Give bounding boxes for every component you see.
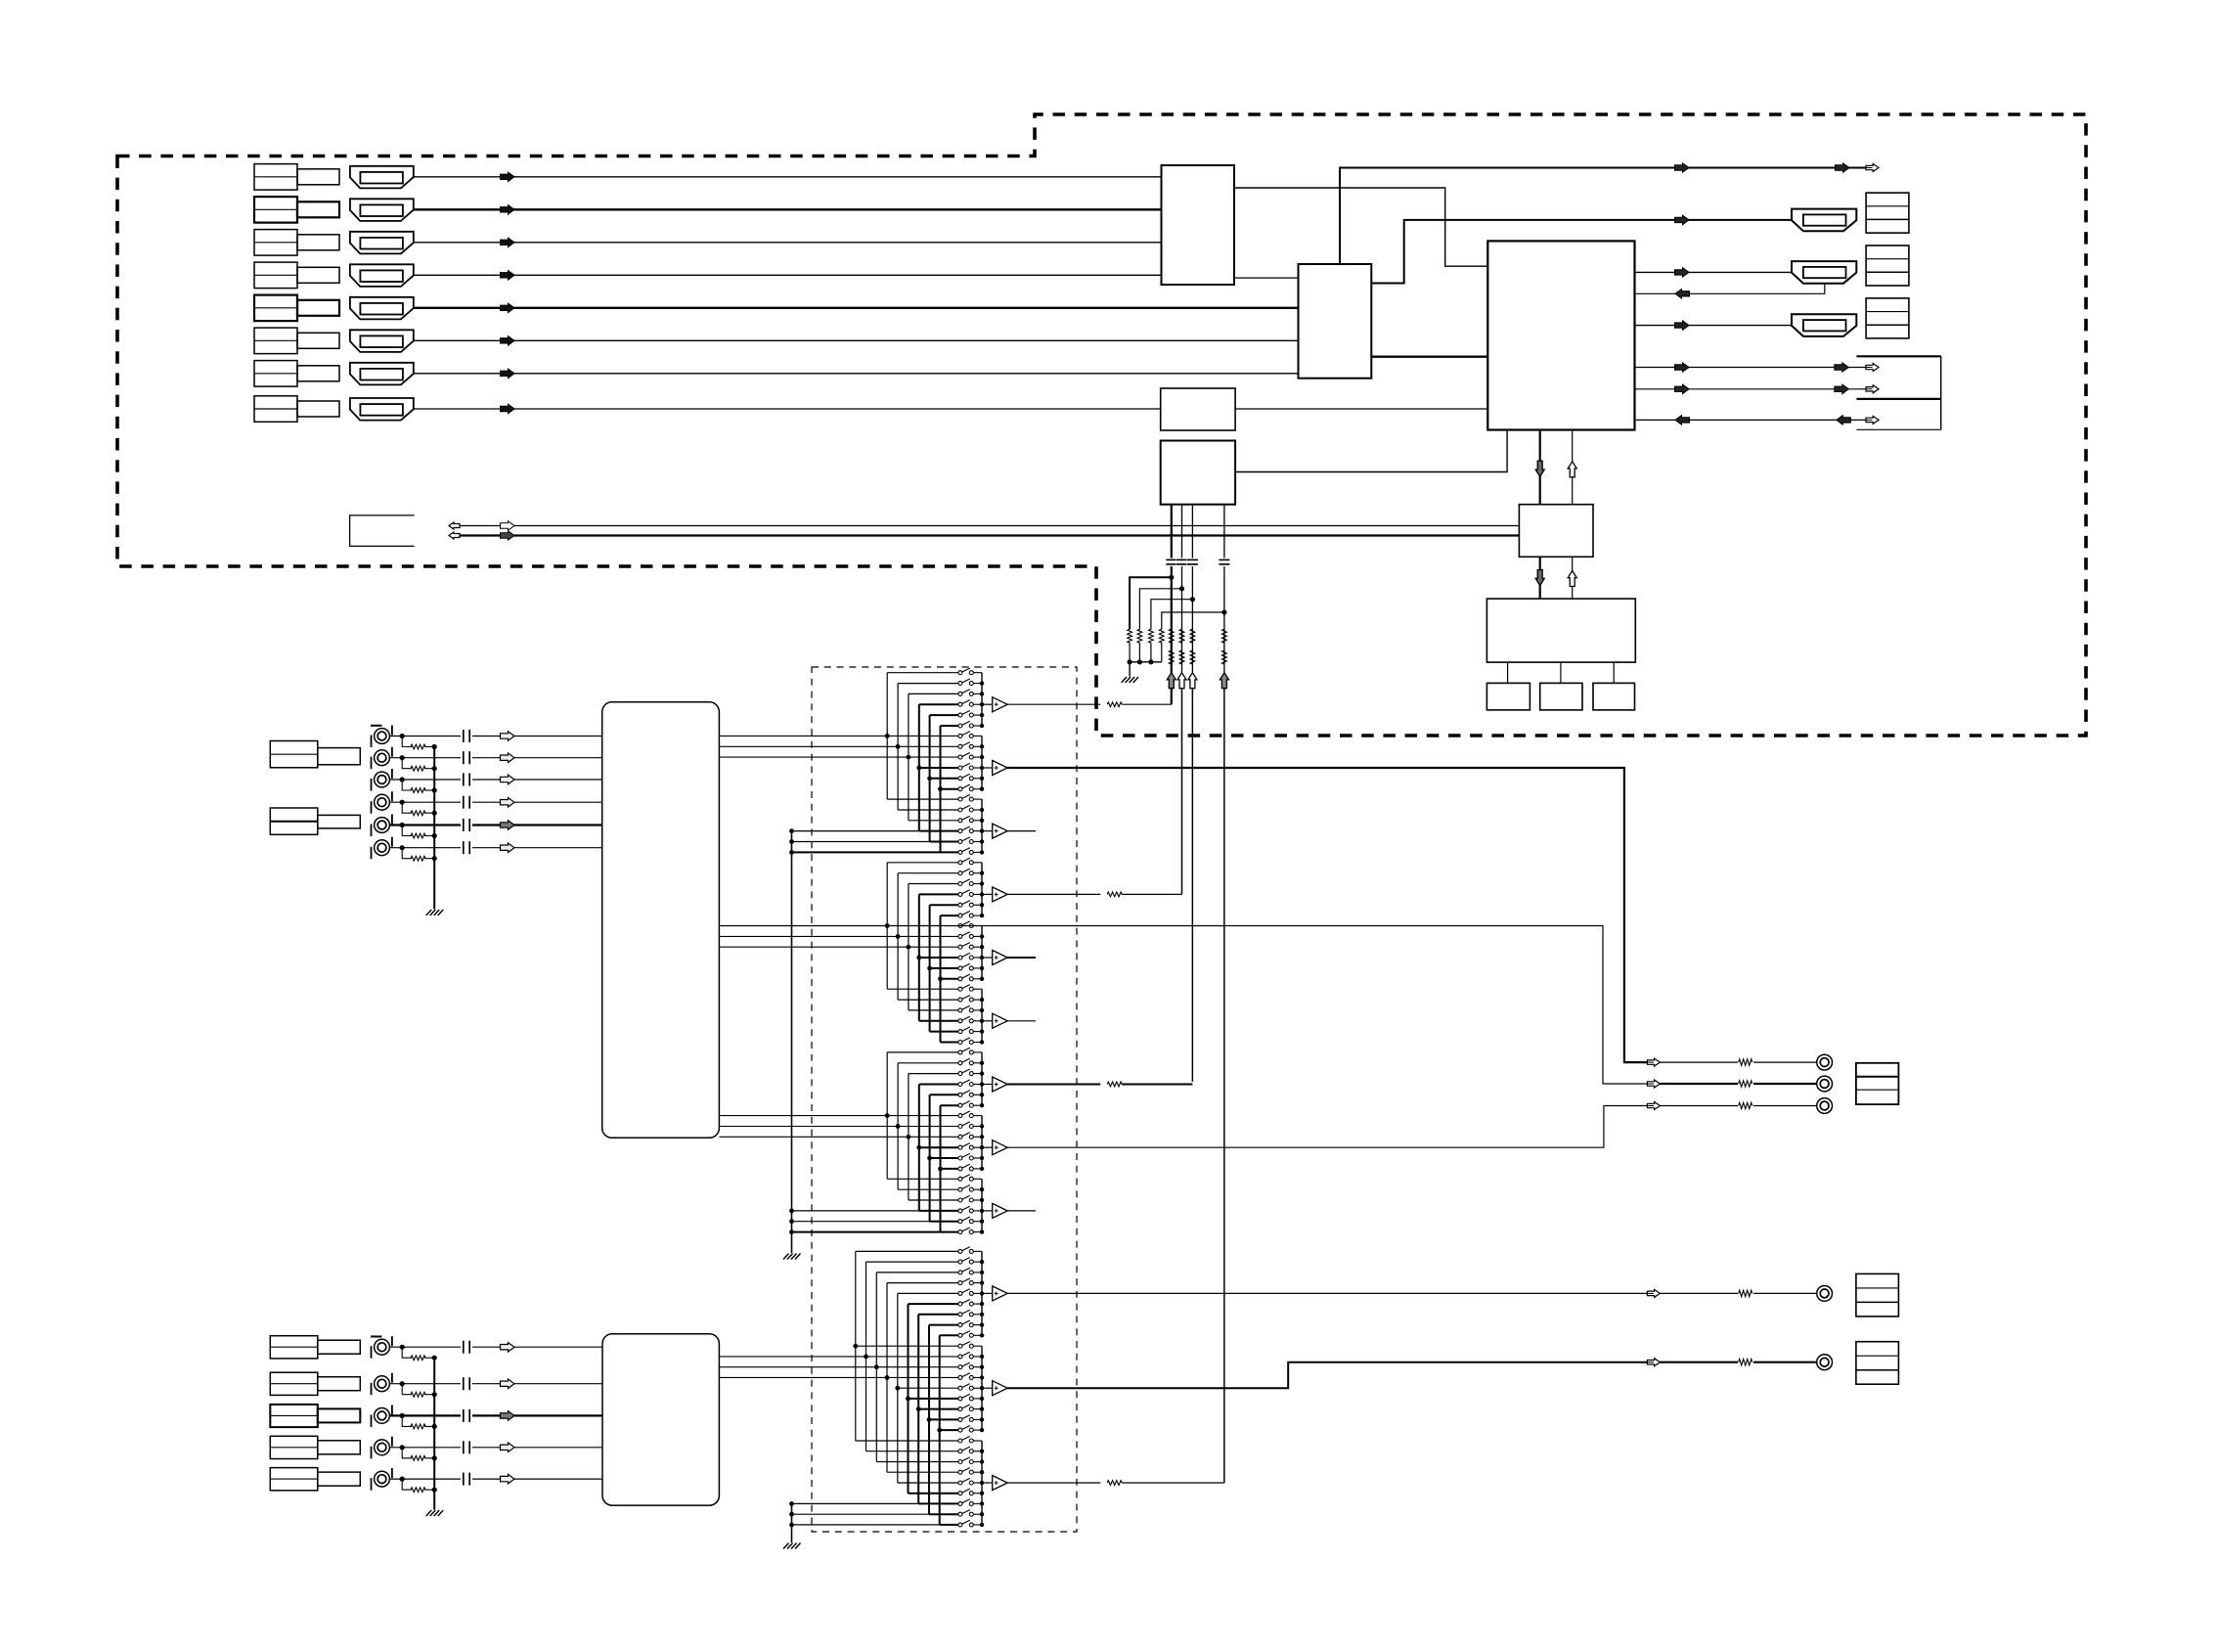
wire: jack signal	[389, 1383, 602, 1385]
termination resistor	[411, 1455, 425, 1460]
switch group U4	[958, 861, 962, 865]
resistor R3a	[1190, 629, 1195, 643]
wire: jack signal	[389, 736, 602, 737]
jack frame marks	[371, 1478, 373, 1491]
switch matrix lower source columns	[855, 1251, 857, 1441]
arrow: J7 direction	[501, 369, 515, 379]
ground bus (matrix upper)	[791, 831, 793, 1253]
wire: jack signal	[389, 757, 602, 759]
ground row	[792, 830, 919, 832]
switch matrix upper super-group 1 source columns	[886, 673, 888, 799]
wire: pulldown branch 3	[1151, 600, 1193, 630]
wire: HDMI J5 signal line	[414, 307, 1299, 309]
ground bus (matrix lower)	[791, 1503, 793, 1542]
wire: pulldown branch 1	[1130, 577, 1172, 629]
switch group U9 output bus	[981, 1179, 983, 1231]
HDMI receiver/processor IC U3	[1487, 241, 1634, 429]
HDMI input connector J2	[350, 199, 414, 221]
switch group L3	[958, 1439, 962, 1443]
termination resistor	[411, 744, 425, 749]
arrow: J3 direction	[501, 238, 515, 247]
output resistor	[1738, 1101, 1753, 1111]
wire: v2 lower part	[1181, 689, 1183, 894]
ground	[426, 910, 432, 915]
arrow: aux B	[1675, 384, 1690, 394]
switch group U5	[958, 924, 962, 928]
wire: jack signal	[389, 1346, 602, 1348]
node: термination bus	[432, 1424, 437, 1429]
terminal block CN2	[1866, 246, 1909, 286]
node: термination bus	[432, 744, 437, 749]
wire: termination branch	[402, 780, 412, 790]
wire: termination branch	[402, 826, 412, 836]
wire: U6-U7 down	[1539, 557, 1541, 599]
switch group L1	[958, 1249, 962, 1253]
arrow: J4 direction	[501, 271, 515, 281]
node: jack tap	[400, 1445, 405, 1450]
HDMI input connector J7	[350, 363, 414, 385]
wire: termination branch	[402, 802, 412, 813]
wire: pulldown branch 2	[1139, 589, 1181, 630]
wire: U5 I2C line 2 vertical	[1181, 505, 1183, 895]
pull-up arrow 3	[1191, 673, 1194, 689]
label boxes group 2 row 5	[270, 1468, 318, 1491]
arrow: J1 direction	[501, 172, 515, 182]
cable bundle (upper)	[602, 702, 720, 1139]
HDMI input connector J1 labels	[254, 164, 297, 191]
wire: buffer B1 to video out 2	[1007, 1292, 1647, 1294]
HDMI input connector J4 labels	[254, 262, 297, 289]
resistor R1a	[1169, 629, 1174, 643]
node: термination bus	[432, 856, 437, 861]
buffer amp A5	[982, 957, 993, 959]
resistor R4b	[1222, 650, 1227, 664]
wire: v3 lower part	[1191, 689, 1193, 1082]
termination resistor	[411, 856, 425, 861]
node: jack tap	[400, 845, 405, 850]
wire: buffer B2 to video out 3	[1007, 1362, 1647, 1389]
switch group U4 output bus	[981, 863, 983, 915]
coupling capacitor	[461, 1345, 472, 1349]
arrow: to HDMI out 1	[1675, 215, 1690, 225]
arrow: TMDS out 1b	[1836, 163, 1850, 172]
terminal block CN7	[1856, 1342, 1899, 1385]
termination resistor	[411, 766, 425, 771]
termination resistor	[411, 1424, 425, 1429]
wire: buffer A4 to v2	[1007, 893, 1100, 895]
resistor R1b	[1169, 650, 1174, 664]
RCA jack	[375, 772, 390, 787]
node: jack tap	[400, 1345, 405, 1350]
wire: control bus SDA	[460, 525, 1519, 527]
switch group L2	[958, 1344, 962, 1348]
node: jack tap	[400, 1381, 405, 1386]
arrow: output	[1647, 1058, 1660, 1066]
connector bracket CN4 (open-left)	[1856, 355, 1940, 357]
node: jack tap	[400, 1477, 405, 1482]
arrow: input	[501, 753, 515, 763]
jack frame marks	[371, 825, 373, 837]
wire: bypass line from bundle to component Pb	[719, 926, 1647, 1085]
arrow: output	[1647, 1102, 1660, 1110]
termination resistor	[411, 1488, 425, 1493]
arrow: input	[501, 1379, 515, 1389]
dashed boundary: tuner/main-board region (compound outline)	[117, 114, 2086, 736]
jack frame marks	[371, 1414, 373, 1427]
label boxes group 1 row B	[270, 808, 318, 834]
resistor R8	[1159, 629, 1164, 643]
buffer amp B2	[982, 1387, 993, 1389]
output resistor	[1738, 1057, 1753, 1067]
wire: U2 to U3 (thick)	[1371, 356, 1487, 358]
terminal block CN1	[1866, 193, 1909, 233]
memory box X2	[1540, 683, 1582, 710]
arrow: input	[501, 1443, 515, 1452]
switch group L2 output bus	[981, 1346, 983, 1430]
arrow: J2 direction	[501, 205, 515, 215]
label boxes group 2 row 3	[270, 1405, 318, 1427]
HDMI input connector J2 labels	[254, 197, 297, 223]
node: термination bus	[432, 787, 437, 792]
coupling capacitor	[461, 1446, 472, 1450]
dashed boundary: AV switch block (thin dashed box)	[812, 667, 1077, 1532]
coupling capacitor	[461, 1477, 472, 1481]
terminal block CN5	[1856, 1063, 1899, 1104]
arrow: output	[1647, 1289, 1660, 1297]
ground row	[792, 851, 941, 853]
HDMI input connector J5 labels	[254, 295, 297, 322]
jack frame marks	[371, 736, 373, 748]
RCA output jack	[1817, 1098, 1833, 1114]
switch group U5 output bus	[981, 926, 983, 979]
label boxes group 2 row 1	[270, 1336, 318, 1359]
wire: HDMI J2 signal line	[414, 208, 1162, 210]
node: tap 3	[1190, 597, 1195, 602]
terminal block CN6	[1856, 1273, 1899, 1317]
wire: termination branch	[402, 1479, 412, 1490]
ground row	[792, 841, 930, 843]
RCA jack	[375, 1440, 390, 1455]
capacitor C1	[1166, 558, 1177, 567]
coupling capacitor	[461, 778, 472, 781]
node: jack tap	[400, 800, 405, 805]
node: термination bus	[432, 1488, 437, 1493]
connector shell (open-right)	[350, 515, 415, 547]
ground row	[792, 1210, 919, 1212]
RCA jack	[375, 1339, 390, 1355]
coupling capacitor	[461, 800, 472, 804]
ground row lower	[792, 1524, 940, 1526]
HDMI input connector J7 labels	[254, 361, 297, 387]
jack frame marks	[371, 1447, 373, 1459]
coupling capacitor	[461, 824, 472, 827]
wire: U3 aux out B	[1635, 388, 1869, 390]
node: jack tap	[400, 734, 405, 738]
arrow: J6 direction	[501, 336, 515, 346]
arrow: input	[501, 775, 515, 784]
wire: jack signal	[389, 779, 602, 781]
label boxes group 2 row 2	[270, 1372, 318, 1395]
wire: HDMI J8 line from repeater U4 to switch U3	[1235, 408, 1487, 410]
wire: jack signal	[389, 1447, 602, 1449]
wire: buffer A3 stub	[1007, 830, 1036, 832]
HDMI input connector J3	[350, 232, 414, 254]
wire: termination branch	[402, 1347, 412, 1358]
arrow: input	[501, 1343, 515, 1353]
ground row lower	[792, 1513, 930, 1515]
output resistor	[1738, 1288, 1753, 1298]
buffer amp A6	[982, 1020, 993, 1022]
ground row lower	[792, 1502, 919, 1504]
RCA output jack	[1817, 1286, 1833, 1302]
wire: HDMI J8 signal line	[414, 408, 1161, 410]
resistor R2b	[1179, 650, 1184, 664]
wire: jack signal	[389, 847, 602, 849]
wire: termination branch	[402, 758, 412, 769]
arrow: U6-U7 down	[1535, 570, 1544, 586]
input lines lower bank	[719, 1356, 865, 1358]
ground row	[792, 1231, 941, 1233]
arrow: TMDS out 1	[1675, 163, 1690, 172]
RCA output jack	[1817, 1355, 1833, 1370]
wire: U3 aux in C	[1635, 419, 1869, 421]
wire: HDMI J7 signal line	[414, 373, 1299, 375]
resistor R7	[1149, 629, 1154, 643]
HDMI input connector J1	[350, 166, 414, 189]
HDMI input connector J4	[350, 264, 414, 287]
jack frame marks	[371, 1346, 373, 1359]
wire: U5 I2C line 3 vertical	[1191, 505, 1193, 1082]
arrow: bus right 2	[501, 531, 515, 540]
HDMI input connector J3 labels	[254, 230, 297, 256]
node: термination bus	[432, 1392, 437, 1397]
switch group U6	[958, 987, 962, 991]
switch group U7	[958, 1050, 962, 1054]
HDMI output connector 1	[1792, 209, 1856, 232]
wire: buffer A2 video out (thick)	[1007, 768, 1647, 1062]
control interface block U6	[1519, 505, 1593, 558]
wire: jack signal	[389, 1478, 602, 1480]
HDMI input connector J6 labels	[254, 328, 297, 354]
termination resistor	[411, 788, 425, 793]
label boxes group 2 row 4	[270, 1436, 318, 1458]
arrow: bus left 2	[449, 532, 460, 539]
RCA jack	[375, 1408, 390, 1424]
arrow: HPD in	[1675, 290, 1690, 299]
RCA jack	[375, 1471, 390, 1487]
wire: U1 out to U3 (staircase)	[1234, 188, 1487, 266]
HDMI input connector J8	[350, 398, 414, 421]
termination bus group 1	[433, 747, 435, 910]
arrow: J5 direction	[501, 303, 515, 313]
coupling capacitor	[461, 756, 472, 760]
RCA jack	[375, 840, 390, 856]
wire: buffer B3 to v4	[1007, 1482, 1100, 1484]
jack frame marks	[371, 779, 373, 791]
cable bundle (lower)	[602, 1334, 719, 1505]
coupling capacitor	[461, 1382, 472, 1386]
wire: U6-U7 up	[1572, 557, 1574, 599]
output resistor	[1738, 1079, 1753, 1089]
HDMI input connector J5	[350, 297, 414, 320]
connector frame mark	[371, 725, 381, 727]
ground	[426, 1510, 432, 1516]
HDMI switch IC U2 (3-input)	[1299, 264, 1372, 379]
jack frame marks	[371, 757, 373, 770]
arrow: bus left 1	[449, 522, 460, 529]
switch matrix upper super-group 2 source columns	[886, 863, 888, 989]
node: термination bus	[432, 1455, 437, 1460]
HDMI input connector J6	[350, 330, 414, 352]
wire: HDMI out 2 HPD return	[1635, 284, 1825, 294]
wire: control bus SCL	[460, 534, 1519, 536]
ground (matrix upper)	[783, 1254, 789, 1260]
wire: to ground	[1129, 662, 1131, 677]
buffer amp A8	[982, 1146, 993, 1148]
arrow: output	[1647, 1080, 1660, 1088]
wire: buffer A8 to component Y out	[1007, 1106, 1647, 1148]
jack frame marks	[371, 847, 373, 860]
wire: U1 out to U2	[1234, 277, 1299, 279]
wire: U7 to X1	[1507, 662, 1509, 683]
arrow: TMDS out 1 end	[1866, 164, 1879, 172]
buffer amp A4	[982, 893, 993, 895]
wire: U5 to U3	[1235, 430, 1507, 472]
resistor R6	[1137, 629, 1142, 643]
capacitor C3	[1186, 558, 1198, 567]
coupling capacitor	[461, 846, 472, 850]
RCA jack	[375, 794, 390, 810]
micom block U7	[1486, 599, 1635, 662]
node: термination bus	[432, 811, 437, 816]
buffer amp A1	[982, 703, 993, 705]
switch group U9	[958, 1177, 962, 1181]
HDMI input connector J8 labels	[254, 396, 297, 423]
termination bus group 2	[433, 1358, 435, 1509]
switch group U8 output bus	[981, 1116, 983, 1169]
wire: pulldown branch 4	[1162, 612, 1224, 630]
wire: jack signal	[389, 824, 602, 826]
arrow: out 2	[1675, 268, 1690, 278]
resistor R3b	[1190, 650, 1195, 664]
resistor R2a	[1179, 629, 1184, 643]
wire: termination branch	[402, 1448, 412, 1458]
wire: U7 to X3	[1613, 662, 1615, 683]
switch matrix upper super-group 3 source columns	[886, 1052, 888, 1179]
repeater block U4	[1161, 388, 1235, 430]
input lines super-group 1	[719, 735, 887, 737]
arrow: aux A	[1675, 363, 1690, 372]
arrow: data down	[1535, 461, 1544, 476]
ground	[1122, 677, 1128, 683]
wire: HDMI J1 signal line	[414, 176, 1162, 178]
switch group U2 output bus	[981, 736, 983, 788]
buffer amp A7	[982, 1084, 993, 1086]
memory box X1	[1486, 683, 1530, 710]
RCA jack	[375, 729, 390, 744]
wire: U3-U6 data down	[1539, 430, 1541, 505]
wire: U3-U6 data up	[1572, 430, 1574, 505]
wire: buffer A5 stub	[1007, 957, 1036, 959]
coupling capacitor	[461, 735, 472, 738]
output resistor	[1738, 1358, 1753, 1367]
arrow: J8 direction	[501, 404, 515, 414]
node: tap 2	[1179, 586, 1184, 591]
node: tap 4	[1221, 609, 1226, 614]
switch group U3 output bus	[981, 799, 983, 852]
switch group L1 output bus	[981, 1251, 983, 1335]
wire: buffer A6 stub	[1007, 1020, 1036, 1022]
wire: HDMI J6 signal line	[414, 339, 1299, 341]
jack frame marks	[371, 801, 373, 814]
arrow: input	[501, 843, 515, 853]
wire: termination branch	[402, 848, 412, 859]
input lines super-group 2	[719, 925, 887, 927]
switch group U7 output bus	[981, 1052, 983, 1105]
node: jack tap	[400, 755, 405, 760]
wire: termination branch	[402, 1415, 412, 1426]
termination resistor	[411, 811, 425, 816]
switch group U1	[958, 671, 962, 675]
arrow: U6-U7 up	[1568, 571, 1576, 587]
resistor R5	[1128, 629, 1132, 643]
wire: jack signal	[389, 801, 602, 803]
node: термination bus	[432, 833, 437, 838]
ground row	[792, 1221, 930, 1223]
switch group U3	[958, 797, 962, 801]
arrow: out 3	[1675, 321, 1690, 331]
wire: U2 up to TMDS out line	[1340, 168, 1869, 265]
wire: U7 to X2	[1560, 662, 1562, 683]
pull-up arrow 1	[1170, 673, 1173, 689]
wire: pulldown common node	[1130, 661, 1162, 663]
wire: jack signal	[389, 1414, 602, 1416]
termination resistor	[411, 1392, 425, 1397]
EDID/equalizer block U5	[1161, 441, 1235, 505]
wire: U3 to HDMI out 3	[1635, 325, 1793, 327]
arrow: bus right 1	[501, 521, 515, 530]
termination resistor	[411, 1356, 425, 1361]
resistor R4a	[1222, 629, 1227, 643]
node: термination bus	[432, 766, 437, 771]
wire: U3 aux out A	[1635, 367, 1869, 369]
wire: buffer A9 stub	[1007, 1210, 1036, 1212]
pull-up arrow 2	[1180, 673, 1183, 689]
buffer amp A3	[982, 830, 993, 832]
arrow: input	[501, 798, 515, 808]
termination resistor	[411, 833, 425, 838]
wire: U3 to HDMI out 2	[1635, 271, 1793, 273]
arrow: input	[501, 732, 515, 740]
buffer amp A9	[982, 1210, 993, 1212]
label boxes group 1 row A	[270, 741, 318, 768]
arrow: input	[501, 1411, 515, 1421]
arrow: input	[501, 821, 515, 829]
wire: U5 I2C line 4 vertical	[1223, 505, 1225, 1483]
wire: termination branch	[402, 737, 412, 747]
RCA output jack	[1817, 1054, 1833, 1070]
node: jack tap	[400, 823, 405, 827]
terminal block CN3	[1866, 298, 1909, 338]
RCA jack	[375, 1376, 390, 1392]
capacitor C2	[1176, 558, 1188, 567]
node: jack tap	[400, 777, 405, 781]
coupling capacitor	[461, 1413, 472, 1417]
ground (matrix lower)	[783, 1543, 789, 1549]
wire: U5 I2C line 1 vertical	[1171, 505, 1173, 705]
capacitor C4	[1219, 558, 1230, 567]
wire: buffer A1 to v1	[1007, 703, 1100, 705]
